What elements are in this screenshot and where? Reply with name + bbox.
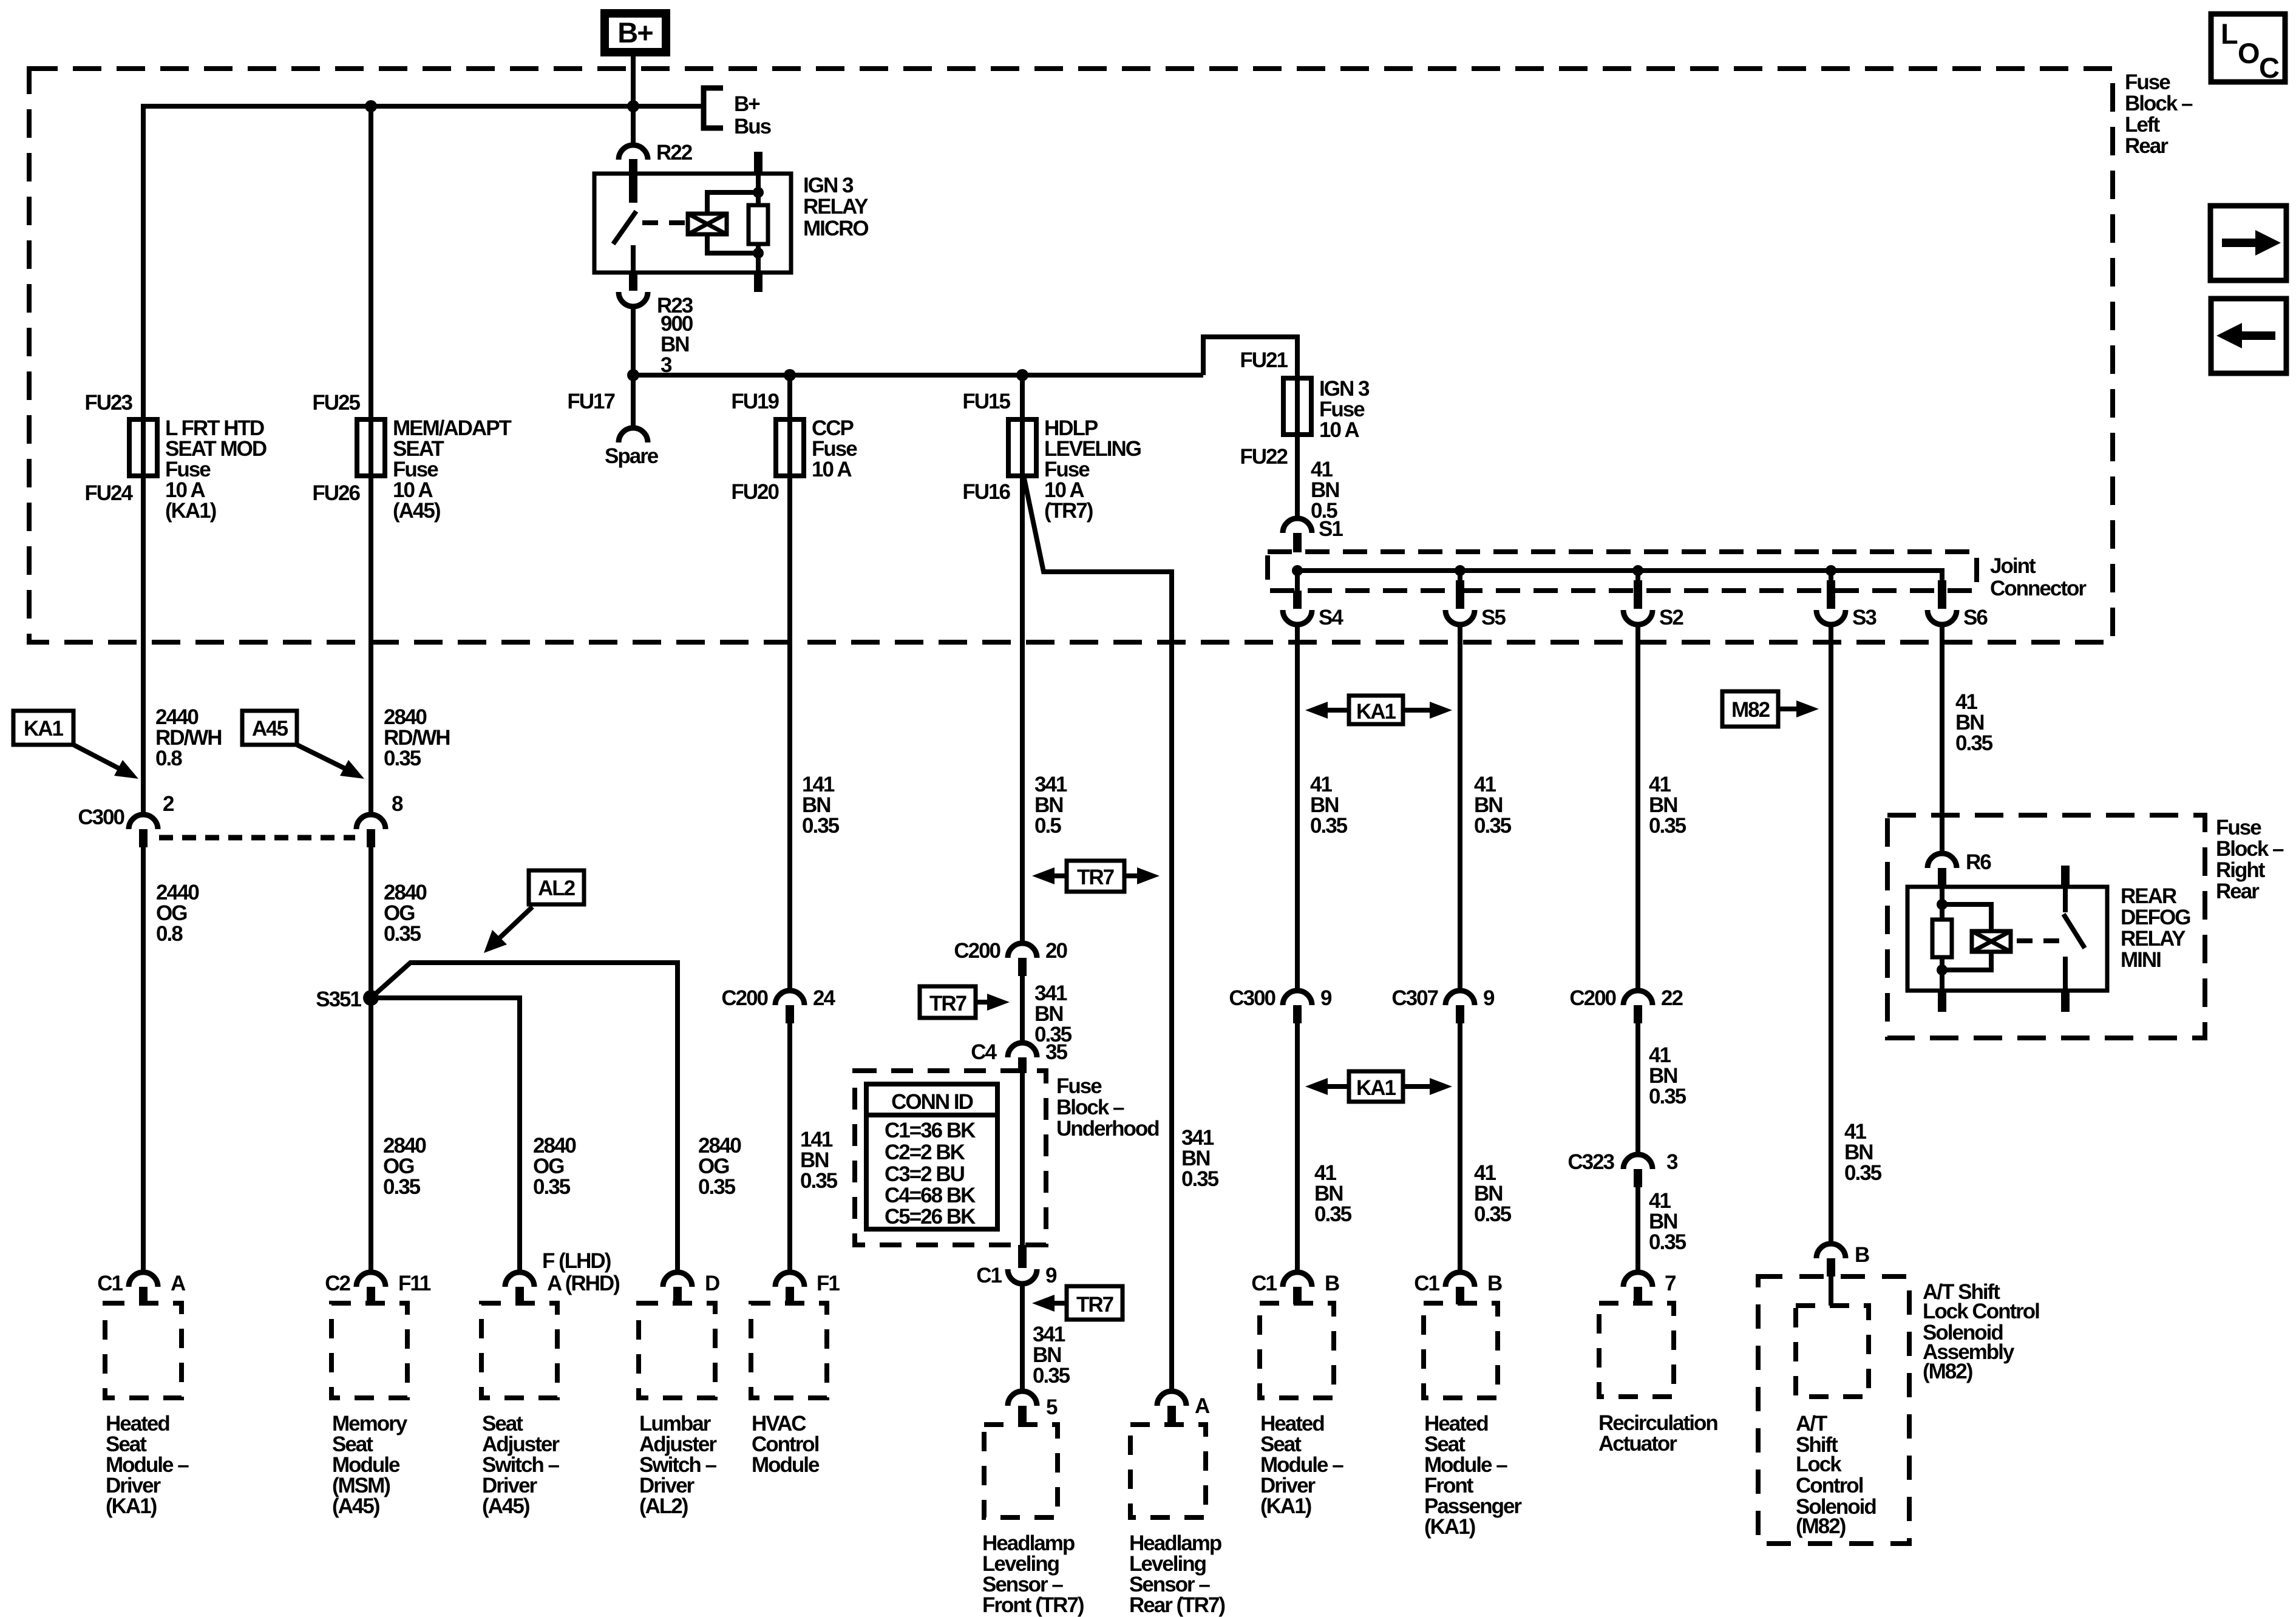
box A/T Shift Lock Control Solenoid inner: [1796, 1306, 1869, 1397]
label Fuse Block - Left Rear: [2125, 70, 2193, 158]
svg-text:FU19: FU19: [731, 390, 779, 413]
svg-text:C2: C2: [325, 1272, 350, 1295]
svg-text:C300: C300: [78, 805, 124, 829]
box HVAC Control Module: [751, 1303, 827, 1398]
connector C300 pin 8: [356, 792, 403, 847]
connector pin A rear sensor: [1157, 1391, 1210, 1424]
box Recirculation Actuator: [1599, 1303, 1674, 1397]
node defog resistor top: [1937, 899, 1948, 910]
svg-text:FU22: FU22: [1240, 445, 1288, 469]
wire label 41 BN 0.35 under S4: [1310, 773, 1348, 838]
relay actuation dashed link: [642, 220, 685, 225]
svg-text:B+: B+: [617, 16, 653, 49]
fuse FU23/FU24 L FRT HTD SEAT MOD: [84, 391, 266, 523]
relay switch fixed contact from top: [629, 175, 637, 203]
wire W12 S3 to A/T solenoid pin B: [1829, 625, 1833, 1244]
svg-text:0.35: 0.35: [802, 814, 840, 838]
svg-text:C: C: [2259, 52, 2279, 84]
svg-text:FU15: FU15: [962, 390, 1010, 413]
connector C1 pin A heated seat driver module: [97, 1272, 186, 1304]
label Fuse Block - Right Rear: [2216, 816, 2284, 903]
connector C200 pin 22: [1569, 986, 1683, 1023]
relay coil box with X: [688, 214, 727, 234]
svg-text:(A45): (A45): [332, 1494, 379, 1518]
svg-text:F1: F1: [817, 1272, 840, 1295]
node junction at FU15: [1016, 369, 1028, 381]
label A/T Shift Lock Control Solenoid (M82) inner: [1796, 1412, 1876, 1538]
svg-text:0.35: 0.35: [800, 1169, 838, 1193]
connector F1 HVAC: [775, 1272, 840, 1304]
svg-text:0.35: 0.35: [1181, 1167, 1219, 1191]
svg-text:REAR: REAR: [2121, 884, 2177, 908]
svg-text:TR7: TR7: [1076, 1293, 1113, 1317]
wire stub inside A/T assembly: [1829, 1276, 1833, 1306]
svg-text:FU21: FU21: [1240, 348, 1288, 372]
svg-text:Block –: Block –: [1056, 1096, 1124, 1119]
wire W5 C200-24 to HVAC: [787, 1023, 792, 1272]
connector pin B A/T shift lock: [1816, 1243, 1869, 1276]
svg-text:Module: Module: [752, 1453, 820, 1477]
svg-text:Rear: Rear: [2125, 134, 2169, 158]
box Headlamp Leveling Sensor - Rear: [1130, 1425, 1206, 1517]
relay switch blade: [613, 211, 636, 244]
svg-text:0.35: 0.35: [1649, 1230, 1686, 1254]
wire C200-20 to C4: [1020, 976, 1025, 1043]
svg-text:9: 9: [1045, 1264, 1057, 1287]
callout M82 arrow: [1722, 691, 1819, 727]
svg-text:F (LHD): F (LHD): [542, 1249, 611, 1273]
wire R6 into relay: [1940, 887, 1944, 920]
node junction bus at B+ drop: [627, 100, 639, 112]
svg-text:S4: S4: [1319, 606, 1343, 629]
label Fuse Block - Underhood: [1056, 1074, 1159, 1141]
relay REAR DEFOG RELAY MINI box: [1907, 887, 2107, 991]
fuse FU21/FU22 IGN 3: [1240, 348, 1370, 469]
wire W2 from bus to C300 pin 8: [369, 106, 373, 815]
label Seat Adjuster Switch - Driver (A45): [482, 1412, 560, 1518]
box Heated Seat Module - Driver right: [1260, 1303, 1334, 1398]
label HVAC Control Module: [752, 1412, 820, 1477]
defog relay switch lower contact: [2063, 957, 2068, 991]
wire label 2440 RD/WH 0.8: [155, 705, 222, 770]
node relay resistor bottom: [753, 248, 764, 259]
svg-text:(KA1): (KA1): [165, 499, 216, 523]
svg-text:O: O: [2238, 37, 2259, 69]
box Headlamp Leveling Sensor - Front: [984, 1425, 1058, 1517]
connector R22: [619, 141, 693, 164]
wire label 341 BN 0.35 mid: [1034, 981, 1072, 1046]
svg-text:0.35: 0.35: [384, 747, 421, 770]
connector F (LHD) A (RHD) seat adjuster: [505, 1249, 619, 1304]
svg-text:Fuse: Fuse: [1056, 1074, 1102, 1098]
splice S6 connector: [1927, 568, 1988, 629]
wire label 2840 RD/WH 0.35: [384, 705, 450, 770]
label Lumbar Adjuster Switch - Driver (AL2): [639, 1412, 717, 1518]
power symbol B+: [605, 13, 666, 52]
callout KA1 double arrow upper: [1305, 696, 1452, 724]
svg-text:C1: C1: [976, 1264, 1002, 1287]
box Heated Seat Module - Front Passenger: [1424, 1303, 1498, 1398]
svg-text:KA1: KA1: [1356, 700, 1396, 724]
label Heated Seat Module - Driver (KA1): [106, 1412, 189, 1518]
svg-text:C4=68 BK: C4=68 BK: [885, 1184, 976, 1207]
svg-text:7: 7: [1665, 1272, 1676, 1295]
wire label 41 BN 0.35 under S5: [1474, 773, 1512, 838]
svg-text:0.35: 0.35: [1649, 814, 1686, 838]
svg-text:FU16: FU16: [962, 480, 1010, 504]
svg-text:Fuse: Fuse: [2216, 816, 2261, 839]
node defog resistor bottom: [1937, 964, 1948, 975]
connector pin 5 front sensor: [1008, 1391, 1058, 1424]
wire label 2840 OG 0.35 W2: [383, 1134, 426, 1199]
connector FU17 Spare: [567, 375, 658, 468]
wire W9 S4 to C300 pin 9: [1295, 625, 1300, 991]
svg-text:M82: M82: [1731, 698, 1770, 722]
defog relay actuation dashed link: [2017, 938, 2059, 943]
wire W5 FU19 to C200 pin 24: [787, 375, 792, 991]
fuse FU25/FU26 MEM/ADAPT SEAT: [312, 391, 511, 523]
wire dashed C300 link: [159, 835, 355, 841]
connector D lumbar adjuster: [663, 1272, 719, 1304]
node S5 tap: [1455, 565, 1466, 576]
svg-text:Block –: Block –: [2216, 837, 2284, 861]
box Memory Seat Module: [331, 1303, 407, 1398]
B+ Bus terminal bracket: [704, 88, 772, 138]
svg-text:L: L: [2221, 18, 2238, 50]
wire W2 C300-8 to memory seat module: [369, 847, 373, 1272]
svg-text:Fuse: Fuse: [2125, 70, 2170, 94]
svg-text:B+: B+: [734, 92, 760, 116]
wire label 41 BN 0.35 on S3 wire: [1844, 1120, 1882, 1185]
callout AL2 with arrow to S351 branch: [484, 870, 584, 953]
wire label 341 BN 0.35 bottom: [1033, 1323, 1070, 1388]
wire label 141 BN 0.35 lower: [800, 1128, 838, 1193]
svg-text:A/T: A/T: [1796, 1412, 1827, 1436]
svg-text:0.35: 0.35: [1314, 1202, 1352, 1226]
svg-text:0.35: 0.35: [1649, 1085, 1686, 1108]
wire C1-9 to front sensor: [1020, 1284, 1025, 1391]
svg-text:Front (TR7): Front (TR7): [982, 1593, 1084, 1617]
callout A45 with arrow to W2: [242, 711, 364, 779]
dashed box Fuse Block - Right Rear: [1887, 815, 2205, 1038]
svg-text:C3=2 BU: C3=2 BU: [885, 1162, 965, 1186]
label Joint Connector: [1990, 554, 2087, 600]
wire label 41 BN 0.35 under C323: [1649, 1189, 1686, 1254]
node S2 tap: [1632, 565, 1643, 576]
defog relay bottom stub right: [2061, 989, 2070, 1012]
CONN ID table: [866, 1084, 997, 1229]
relay bottom stub to R23: [629, 271, 637, 291]
svg-text:0.35: 0.35: [698, 1175, 736, 1199]
defog relay switch top terminal stub: [2061, 866, 2070, 889]
dashed box Fuse Block - Left Rear: [29, 69, 2113, 642]
svg-text:Lock Control: Lock Control: [1923, 1300, 2039, 1323]
svg-text:FU24: FU24: [84, 481, 133, 505]
svg-text:Block –: Block –: [2125, 92, 2193, 115]
wire defog coil top link: [1942, 904, 1991, 931]
wire W6 FU15 to C200 pin 20: [1020, 375, 1025, 943]
svg-text:0.8: 0.8: [156, 922, 183, 946]
svg-text:0.35: 0.35: [1474, 814, 1512, 838]
svg-text:Rear: Rear: [2216, 880, 2260, 903]
svg-text:5: 5: [1046, 1395, 1058, 1419]
node junction bus at FU25 wire: [365, 100, 377, 112]
svg-text:0.35: 0.35: [383, 1175, 421, 1199]
svg-text:Control: Control: [1796, 1474, 1863, 1497]
label A/T Shift Lock Control Solenoid Assembly (M82): [1923, 1280, 2039, 1383]
svg-text:A: A: [171, 1272, 186, 1295]
splice S3 connector: [1816, 571, 1877, 629]
fuse FU19/FU20 CCP: [731, 390, 857, 504]
svg-text:FU20: FU20: [731, 480, 779, 504]
svg-text:8: 8: [392, 792, 403, 816]
resistor inside relay: [749, 205, 768, 244]
svg-text:CONN ID: CONN ID: [891, 1090, 973, 1114]
relay switch lower contact: [631, 245, 636, 273]
svg-text:Underhood: Underhood: [1056, 1117, 1159, 1141]
splice S4 connector: [1283, 571, 1343, 629]
connector C1 pin B heated seat passenger: [1414, 1272, 1502, 1304]
wire label 41 BN 0.35 under S6: [1955, 690, 1993, 755]
svg-text:FU25: FU25: [312, 391, 360, 415]
wire defog coil bottom link: [1942, 950, 1991, 970]
callout KA1 with arrow to W1: [13, 711, 138, 779]
connector R6: [1927, 850, 1991, 888]
label REAR DEFOG RELAY MINI: [2121, 884, 2190, 972]
wire W10 S5 to C307 pin 9: [1458, 625, 1462, 991]
wire relay right vertical: [756, 174, 761, 205]
svg-text:TR7: TR7: [929, 992, 966, 1015]
connector C2 pin F11: [325, 1272, 431, 1304]
connector C300 pin 2: [78, 792, 174, 847]
box Heated Seat Module - Driver: [105, 1303, 182, 1398]
svg-text:(KA1): (KA1): [1260, 1494, 1311, 1518]
wire label 41 BN 0.35 under C300-9: [1314, 1161, 1352, 1226]
relay U-IGN3 stub into relay: [629, 159, 637, 175]
wire FU16 branch diagonal to rear sensor riser: [1024, 478, 1172, 1391]
wire W1 from bus corner to C300 pin 2: [141, 104, 146, 815]
svg-text:Bus: Bus: [734, 115, 772, 138]
splice S351: [316, 988, 379, 1011]
wire W13 S6 to R6: [1940, 625, 1944, 853]
svg-text:MICRO: MICRO: [803, 217, 868, 240]
dashed box Fuse Block - Underhood: [855, 1071, 1046, 1245]
svg-text:C200: C200: [954, 939, 1000, 963]
svg-text:B: B: [1855, 1243, 1869, 1267]
svg-text:Right: Right: [2216, 858, 2266, 882]
svg-text:S5: S5: [1481, 606, 1506, 629]
svg-text:A45: A45: [252, 717, 288, 741]
svg-text:24: 24: [813, 986, 835, 1010]
svg-text:C1: C1: [1251, 1272, 1277, 1295]
svg-text:0.35: 0.35: [1844, 1161, 1882, 1185]
right arrow legend box: [2210, 206, 2286, 280]
wire W11 C323 to recirculation actuator: [1635, 1187, 1640, 1272]
wire label 2440 OG 0.8: [156, 881, 199, 946]
svg-text:C4: C4: [971, 1040, 997, 1064]
wire B+ down to bus: [631, 56, 636, 106]
wire label 41 BN 0.35 under S2: [1649, 773, 1686, 838]
svg-text:0.35: 0.35: [1474, 1202, 1512, 1226]
svg-text:3: 3: [1666, 1150, 1678, 1174]
fuse FU15/FU16 HDLP LEVELING: [962, 390, 1141, 523]
svg-text:9: 9: [1483, 986, 1495, 1010]
connector C307 pin 9: [1391, 986, 1495, 1023]
svg-text:S3: S3: [1852, 606, 1877, 629]
label Headlamp Leveling Sensor - Rear (TR7): [1129, 1531, 1224, 1617]
callout TR7 left arrow: [1032, 1286, 1123, 1320]
LOC legend box: [2211, 14, 2285, 84]
connector C4 pin 35: [971, 1040, 1067, 1073]
wire label 2840 OG 0.35 W4: [698, 1134, 741, 1199]
defog relay coil box with X: [1972, 931, 2011, 952]
svg-text:(A45): (A45): [482, 1494, 529, 1518]
wire W11 S2 to C200 pin 22: [1635, 625, 1640, 991]
wire label 41 BN 0.35 under C200-22: [1649, 1043, 1686, 1108]
svg-text:10 A: 10 A: [812, 458, 852, 481]
node junction at R23 drop: [627, 369, 639, 381]
svg-text:(TR7): (TR7): [1044, 499, 1093, 523]
resistor inside defog relay: [1932, 920, 1952, 957]
label IGN 3 RELAY MICRO: [803, 174, 868, 240]
wire fuse feed bus: [633, 373, 1203, 378]
svg-text:35: 35: [1045, 1040, 1067, 1064]
label Recirculation Actuator: [1598, 1411, 1717, 1456]
wire coil top link: [707, 192, 758, 214]
wire feed bus riser to FU21: [1203, 337, 1297, 378]
svg-text:0.8: 0.8: [155, 747, 182, 770]
svg-text:C1: C1: [97, 1272, 123, 1295]
svg-text:FU23: FU23: [84, 391, 132, 415]
wire label 341 BN 0.5: [1034, 773, 1067, 838]
wire FU21 fuse to S1: [1295, 435, 1300, 518]
wire resistor bottom: [1940, 957, 1944, 991]
svg-text:(KA1): (KA1): [106, 1494, 157, 1518]
svg-text:Connector: Connector: [1990, 577, 2087, 600]
svg-text:0.35: 0.35: [384, 922, 421, 946]
wire horizontal B+ bus: [143, 104, 704, 109]
svg-text:(M82): (M82): [1923, 1360, 1972, 1383]
svg-text:0.35: 0.35: [1310, 814, 1348, 838]
svg-text:A: A: [1195, 1394, 1210, 1418]
connector C1 pin 9: [976, 1245, 1057, 1287]
callout KA1 double arrow lower: [1305, 1071, 1452, 1102]
box Lumbar Adjuster Switch - Driver: [639, 1303, 715, 1398]
node S3 tap: [1826, 565, 1836, 576]
wire W10 C307-9 to heated seat passenger: [1458, 1023, 1462, 1272]
svg-text:B: B: [1487, 1272, 1502, 1295]
box Seat Adjuster Switch - Driver: [481, 1303, 557, 1398]
svg-text:Rear (TR7): Rear (TR7): [1129, 1593, 1224, 1617]
callout TR7 double arrow: [1032, 861, 1160, 892]
splice S5 connector: [1445, 571, 1506, 629]
relay right bottom terminal stub: [754, 271, 763, 292]
box A/T Shift Lock Control Solenoid Assembly outer: [1758, 1276, 1909, 1544]
node S1 tap: [1292, 565, 1303, 576]
wire label 41 BN 0.35 under C307-9: [1474, 1161, 1512, 1226]
svg-text:R6: R6: [1966, 850, 1991, 874]
svg-text:RELAY: RELAY: [803, 195, 868, 219]
svg-text:KA1: KA1: [24, 717, 64, 741]
svg-text:9: 9: [1320, 986, 1332, 1010]
wire S351 lower branch to seat adjuster riser: [371, 998, 520, 1272]
svg-text:S351: S351: [316, 988, 361, 1011]
op-amp relay IGN 3 RELAY MICRO box: [594, 174, 791, 273]
label Headlamp Leveling Sensor - Front (TR7): [982, 1531, 1084, 1617]
svg-text:RELAY: RELAY: [2121, 927, 2186, 951]
svg-text:10 A: 10 A: [1319, 418, 1359, 442]
wire R23 down to junction: [631, 307, 636, 375]
wire bus to R22: [631, 106, 636, 146]
callout TR7 right arrow: [920, 986, 1010, 1018]
node relay resistor top: [753, 187, 764, 198]
wire label 41 BN 0.5: [1311, 458, 1339, 523]
svg-text:0.35: 0.35: [1955, 731, 1993, 755]
label Memory Seat Module (MSM) (A45): [332, 1412, 408, 1518]
svg-text:S1: S1: [1319, 517, 1343, 541]
connector C200 pin 24: [721, 986, 835, 1023]
defog relay bottom stub left: [1938, 989, 1946, 1012]
svg-text:Lock: Lock: [1796, 1453, 1842, 1476]
wire label 900 BN 3: [661, 312, 693, 377]
svg-text:S2: S2: [1659, 606, 1683, 629]
connector C200 pin 20: [954, 939, 1067, 976]
svg-text:C300: C300: [1229, 986, 1275, 1010]
svg-text:D: D: [705, 1272, 719, 1295]
svg-text:0.35: 0.35: [1033, 1364, 1070, 1388]
svg-text:C1=36 BK: C1=36 BK: [885, 1119, 976, 1142]
connector C1 pin B heated seat driver: [1251, 1272, 1339, 1304]
svg-text:FU26: FU26: [312, 481, 360, 505]
connector C300 pin 9: [1229, 986, 1332, 1023]
connector R23: [619, 292, 693, 317]
wire W6 through underhood box: [1020, 1071, 1025, 1245]
wire label 141 BN 0.35 upper: [802, 773, 840, 838]
svg-text:A (RHD): A (RHD): [547, 1272, 619, 1295]
svg-text:IGN 3: IGN 3: [803, 174, 854, 197]
splice S1 connector: [1283, 517, 1343, 552]
label Heated Seat Module - Driver (KA1) right: [1260, 1412, 1343, 1518]
connector pin 7 recirculation actuator: [1623, 1272, 1676, 1304]
wire S351 upper branch to lumbar riser: [371, 963, 678, 1272]
svg-text:C2=2 BK: C2=2 BK: [885, 1141, 965, 1164]
svg-text:22: 22: [1661, 986, 1683, 1010]
svg-text:C200: C200: [721, 986, 768, 1010]
svg-text:AL2: AL2: [538, 876, 576, 900]
wire W9 C300-9 to heated seat driver: [1295, 1023, 1300, 1272]
svg-text:Left: Left: [2125, 113, 2161, 137]
wire coil bottom link: [707, 234, 758, 253]
svg-text:Actuator: Actuator: [1598, 1432, 1677, 1456]
svg-text:TR7: TR7: [1077, 866, 1114, 889]
svg-text:(KA1): (KA1): [1424, 1515, 1475, 1539]
wire label 341 BN 0.35 on W7: [1181, 1126, 1219, 1191]
connector C323 pin 3: [1567, 1150, 1678, 1187]
joint connector dashed box: [1268, 552, 1977, 591]
wire label 2840 OG 0.35 upper: [384, 881, 427, 946]
defog relay switch blade: [2063, 914, 2085, 948]
defog relay switch fixed contact: [2063, 887, 2068, 912]
svg-text:MINI: MINI: [2121, 948, 2161, 972]
svg-text:KA1: KA1: [1356, 1076, 1396, 1100]
node junction at FU19: [784, 369, 796, 381]
svg-text:C5=26 BK: C5=26 BK: [885, 1205, 976, 1229]
svg-text:Joint: Joint: [1990, 554, 2036, 578]
svg-text:C200: C200: [1569, 986, 1616, 1010]
svg-text:2: 2: [163, 792, 174, 816]
svg-text:C323: C323: [1567, 1150, 1614, 1174]
svg-text:Spare: Spare: [605, 444, 659, 468]
